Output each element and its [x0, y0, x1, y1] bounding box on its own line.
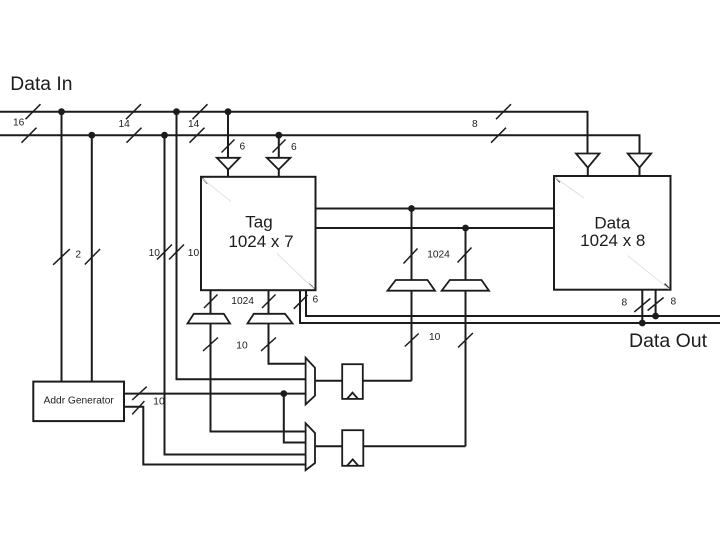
artifact diagonal in Tag box lower right: [277, 254, 314, 290]
wire Data output left to lower rail: [641, 290, 643, 323]
wire U3 output to Data top: [587, 168, 589, 176]
svg-text:Data In: Data In: [10, 74, 72, 95]
bus width slash 14 on bus1: [126, 104, 141, 119]
bus width slash 2 on addr drop B: [85, 249, 100, 265]
bus width slash on bus2 mid: [127, 128, 142, 143]
wire mux M2 output to R2: [315, 445, 342, 447]
node bus1-addr junction: [58, 108, 65, 115]
svg-text:8: 8: [472, 119, 478, 130]
wire Tag bottom to driver C: [210, 290, 212, 314]
svg-text:14: 14: [188, 119, 200, 130]
bus width slash 8 on bus1: [496, 104, 511, 119]
corner artifact stub Data top-left: [555, 177, 560, 182]
Addr Generator block: [33, 382, 124, 422]
node bus2-mux drop junction: [161, 132, 168, 139]
svg-text:10: 10: [429, 332, 441, 343]
wire Data output right to upper rail: [655, 290, 657, 316]
node driver A tap on upper Tag-Data line: [408, 205, 415, 212]
svg-text:10: 10: [149, 248, 161, 259]
corner artifact stub Data bottom-right: [665, 284, 670, 289]
wire U4 output to Data top: [639, 168, 641, 176]
svg-text:10: 10: [153, 397, 165, 408]
bus width slash on addr output 2: [132, 401, 144, 414]
bus width slash 10 on bus1 drop: [169, 245, 184, 260]
wire driver C output to mux M2: [211, 324, 306, 432]
register R2: [342, 430, 363, 466]
bus width slash 10 below driver A: [405, 334, 419, 347]
svg-text:10: 10: [188, 248, 200, 259]
bus width slash 6 at U2: [273, 140, 286, 153]
wire stem above driver A: [411, 209, 413, 281]
bus width slash 16 on bus1: [26, 104, 41, 119]
wire bus2 drop to mux M2 input: [165, 135, 306, 454]
svg-text:6: 6: [313, 295, 319, 306]
artifact diagonal in Tag box: [202, 179, 231, 202]
wire driver A input from register R1: [411, 291, 413, 381]
node bus2-addr junction: [88, 132, 95, 139]
node bus1-U1 junction: [225, 108, 232, 115]
bus width slash on addr drop A: [53, 249, 70, 265]
driver B write-back: [442, 280, 489, 291]
wire drop to Addr Generator input B: [91, 135, 93, 381]
wire mux M1 output to R1: [315, 380, 342, 382]
mux M2: [306, 423, 315, 470]
bus width slash 10 on addr output 1: [132, 387, 147, 400]
bus width slash 8 on Data out left: [634, 299, 650, 313]
corner artifact stub Tag bottom-right: [309, 284, 315, 290]
bus width slash below driver D: [261, 338, 276, 352]
svg-text:10: 10: [236, 341, 248, 352]
wire R1 output: [363, 380, 412, 382]
node addr output branch junction: [280, 390, 287, 397]
svg-text:8: 8: [671, 296, 677, 307]
svg-text:8: 8: [622, 297, 628, 308]
bus width slash 6 on Tag output: [294, 295, 308, 309]
mux M1: [306, 358, 315, 405]
wire bus2 Data In lower bus: [0, 135, 640, 153]
wire Addr Generator output 2 to mux M2: [124, 407, 306, 465]
wire Tag to Data lower line: [316, 227, 555, 229]
tri-state buffer U1: [217, 158, 240, 170]
artifact diagonal in Data box: [555, 178, 584, 199]
wire bus1 Data In upper 16-bit bus: [0, 112, 588, 154]
svg-text:1024 x 7: 1024 x 7: [228, 232, 293, 251]
bus width slash 14 second on bus1: [193, 104, 208, 119]
svg-text:2: 2: [75, 250, 81, 261]
Tag RAM block: [201, 177, 316, 290]
wire Addr Generator output 1 to mux M1: [124, 393, 306, 395]
bus width slash on bus2 right: [491, 128, 506, 143]
bus width slash 10 below driver C: [203, 338, 218, 352]
svg-text:Tag: Tag: [245, 213, 272, 232]
wire stem above driver B: [465, 228, 467, 280]
artifact diagonal in Data box lower right: [628, 256, 670, 290]
node bus2-U2 junction: [275, 132, 282, 139]
tri-state buffer U2: [267, 158, 291, 170]
bus width slash 1024 on Tag stem C: [204, 295, 218, 309]
bus width slash 1024 on driver A stem: [404, 249, 418, 264]
wire bus1 drop to mux M1 input: [177, 112, 306, 380]
driver A write-back: [388, 280, 436, 291]
bus width slash on driver B stem: [458, 248, 472, 263]
bus width slash on bus2 second: [190, 128, 205, 143]
bus width slash on bus2 left: [22, 128, 37, 143]
tri-state buffer U3: [576, 154, 600, 168]
node bus1-mux drop junction: [173, 108, 180, 115]
svg-text:Data: Data: [594, 214, 630, 233]
bus width slash 6 at U1: [222, 140, 235, 153]
wire driver D output to mux M1: [269, 324, 306, 364]
svg-text:14: 14: [119, 119, 131, 130]
wire driver B input from register R2: [465, 291, 467, 447]
wire Tag bottom to driver D: [268, 290, 270, 314]
wire drop to Addr Generator input A: [61, 112, 63, 382]
svg-text:6: 6: [240, 142, 246, 153]
svg-text:6: 6: [291, 142, 297, 153]
svg-text:Addr Generator: Addr Generator: [44, 395, 115, 406]
wire stub to buffer U2: [278, 135, 280, 158]
node Data output on upper rail: [652, 313, 659, 320]
svg-text:1024 x 8: 1024 x 8: [580, 231, 645, 250]
svg-text:1024: 1024: [427, 250, 450, 261]
bus width slash on Tag stem D: [262, 295, 276, 309]
Data RAM block: [554, 176, 671, 290]
driver C below Tag: [188, 314, 231, 324]
wire U1 output to Tag top: [227, 170, 229, 177]
wire Tag 6-bit output to Data Out lower rail: [300, 290, 720, 323]
node driver B tap on lower Tag-Data line: [462, 225, 469, 232]
svg-text:Data Out: Data Out: [629, 330, 708, 352]
corner artifact stub Tag top-left: [202, 178, 208, 184]
svg-text:1024: 1024: [231, 296, 254, 307]
register R1: [342, 364, 363, 399]
wire R2 output: [363, 445, 465, 447]
svg-text:16: 16: [13, 118, 25, 129]
bus width slash 10 on bus2 drop: [157, 245, 172, 260]
wire branch from node to mux M2: [284, 394, 306, 443]
wire Tag 6-bit output to Data Out upper rail: [306, 290, 720, 316]
bus width slash below driver B: [458, 333, 473, 347]
wire Tag to Data upper line: [316, 208, 555, 210]
bus width slash 8 on Data out right: [648, 298, 664, 311]
wire U2 output to Tag top: [278, 170, 280, 177]
node Data output on lower rail: [639, 320, 646, 327]
wire stub to buffer U1: [227, 112, 229, 158]
tri-state buffer U4: [628, 154, 652, 168]
driver D below Tag: [248, 314, 293, 324]
